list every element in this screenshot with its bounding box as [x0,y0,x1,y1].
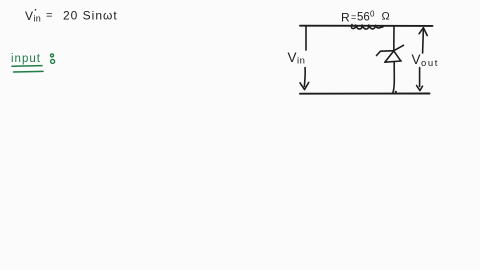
label input (green, double underlined, with colon) [11,53,41,65]
underline 1 of input [12,65,42,68]
colon upper ring [51,54,54,57]
colon lower ring [51,59,55,63]
zener diode D1 triangle (anode) [385,51,402,62]
arrow Vout down [417,68,423,91]
svg-text:=: = [46,10,52,22]
svg-text:R: R [341,11,350,25]
junction dot at zener/bottom rail [395,91,397,93]
svg-text:out: out [421,58,439,69]
svg-text:V: V [412,52,421,67]
arrow Vin polarity (down) [300,68,309,90]
svg-text:V: V [288,50,297,65]
svg-text:Ω: Ω [382,10,390,22]
svg-text:0: 0 [370,9,375,18]
underline 2 of input [14,70,44,73]
wire zener branch bottom segment [393,62,395,93]
label equation Vin = 20 Sin wt [25,9,118,24]
wire zener branch top segment [393,26,395,49]
wire Vin branch stub [305,26,307,50]
label Vout [412,52,440,69]
svg-text:56: 56 [357,12,370,24]
svg-text:in: in [34,14,42,24]
svg-text:20 Sinωt: 20 Sinωt [63,9,118,23]
svg-text:input: input [11,53,41,65]
svg-text:in: in [297,56,305,67]
svg-text:=: = [351,12,356,22]
label R = 560 ohm [341,9,390,24]
wire top rail [300,25,433,27]
zener diode D1 (cathode bar with bent ends) [377,45,404,55]
label Vin [288,50,306,67]
arrow Vout up [419,28,427,53]
wire bottom rail [300,93,430,95]
svg-text:V: V [25,9,33,23]
resistor R squiggle on rail [352,25,384,30]
